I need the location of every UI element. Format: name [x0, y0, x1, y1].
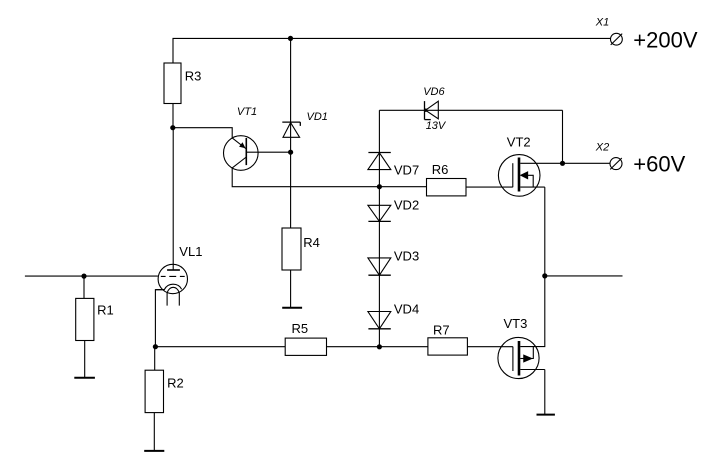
wire R4 bottom — [290, 270, 292, 308]
svg-text:VT3: VT3 — [504, 316, 528, 331]
wire VT1 base to VD1 — [246, 151, 290, 153]
diode VD2 — [368, 205, 391, 221]
zener diode VD1 — [282, 122, 300, 137]
wire diode stack vertical — [378, 110, 380, 346]
resistor R7 — [428, 338, 468, 355]
wire to R7 — [379, 346, 428, 348]
wire input grid — [25, 275, 158, 277]
MOSFET VT3 — [498, 337, 545, 378]
wire VT3 source down — [544, 370, 546, 415]
wire VL1 anode — [172, 128, 174, 270]
svg-text:X1: X1 — [595, 16, 609, 28]
svg-text:VD2: VD2 — [394, 198, 419, 213]
svg-text:R1: R1 — [97, 302, 114, 317]
wire to X2 — [563, 162, 611, 164]
wire R1 bottom — [84, 341, 86, 378]
wire VT1 collector to diode stack — [232, 168, 379, 187]
resistor R6 — [427, 179, 467, 196]
wire mid node output — [545, 275, 623, 277]
junction diode stack bottom / R5 / R7 — [377, 344, 382, 349]
junction diode stack / R6 — [377, 184, 382, 189]
svg-text:VD6: VD6 — [423, 86, 445, 98]
wire VD6 to VT2 drain — [562, 110, 564, 163]
wire to R5 — [155, 346, 285, 348]
svg-text:VD3: VD3 — [394, 248, 419, 263]
ground R4 — [282, 307, 302, 309]
resistor R4 — [282, 228, 301, 270]
diode VD4 — [368, 312, 391, 329]
svg-text:VD1: VD1 — [307, 111, 328, 123]
svg-text:13V: 13V — [426, 120, 447, 132]
svg-text:+60V: +60V — [633, 151, 685, 176]
ground R1 — [74, 377, 95, 379]
svg-text:VL1: VL1 — [179, 244, 202, 259]
svg-text:R4: R4 — [303, 235, 320, 250]
svg-text:R7: R7 — [433, 323, 450, 338]
tube VL1 — [155, 264, 187, 305]
junction top rail / VD1 — [288, 36, 293, 41]
wire R2 bottom — [153, 413, 155, 451]
zener diode VD6 13V — [424, 101, 438, 120]
junction R3 / VT1 emitter / VL1 anode — [170, 125, 175, 130]
wire R5 to diode stack — [327, 346, 380, 348]
wire to R6 — [379, 186, 426, 188]
terminal X1 — [611, 33, 623, 45]
wire R6 to VT2 gate — [466, 186, 513, 188]
wire VD1 vertical — [290, 38, 292, 228]
junction mid node — [542, 273, 547, 278]
svg-text:VT1: VT1 — [237, 106, 257, 118]
junction input / R1 — [81, 274, 86, 279]
wire R2 top — [154, 347, 156, 371]
resistor R3 — [164, 63, 181, 104]
svg-text:R3: R3 — [185, 69, 202, 84]
svg-text:VD7: VD7 — [394, 163, 419, 178]
wire VT1 emitter — [173, 128, 232, 138]
junction cathode / R5 / R2 — [153, 344, 158, 349]
svg-text:R5: R5 — [292, 321, 309, 336]
transistor VT1 — [224, 136, 259, 171]
wire R7 to VT3 gate — [467, 346, 513, 348]
diode VD7 — [368, 153, 391, 170]
svg-text:VD4: VD4 — [394, 302, 419, 317]
ground VT3 — [537, 414, 555, 416]
resistor R1 — [76, 298, 94, 340]
wire R3 bottom — [172, 104, 174, 128]
MOSFET VT2 — [498, 155, 562, 197]
resistor R2 — [145, 370, 163, 412]
junction VD1 / VT1 base — [288, 150, 293, 155]
wire VD6 horizontal — [379, 109, 562, 111]
junction VT2 drain / X2 — [560, 161, 565, 166]
svg-text:VT2: VT2 — [507, 134, 531, 149]
svg-text:R2: R2 — [167, 376, 184, 391]
wire top rail +200V — [173, 38, 611, 63]
terminal X2 — [610, 158, 622, 170]
wire R1 top — [83, 276, 85, 298]
svg-text:+200V: +200V — [633, 28, 698, 53]
resistor R5 — [285, 338, 326, 355]
wire VT2 source to VT3 drain — [520, 187, 545, 347]
diode VD3 — [368, 258, 391, 275]
svg-text:X2: X2 — [595, 141, 609, 153]
svg-text:R6: R6 — [432, 162, 449, 177]
ground R2 — [144, 450, 164, 452]
wire VL1 cathode down — [155, 290, 164, 347]
